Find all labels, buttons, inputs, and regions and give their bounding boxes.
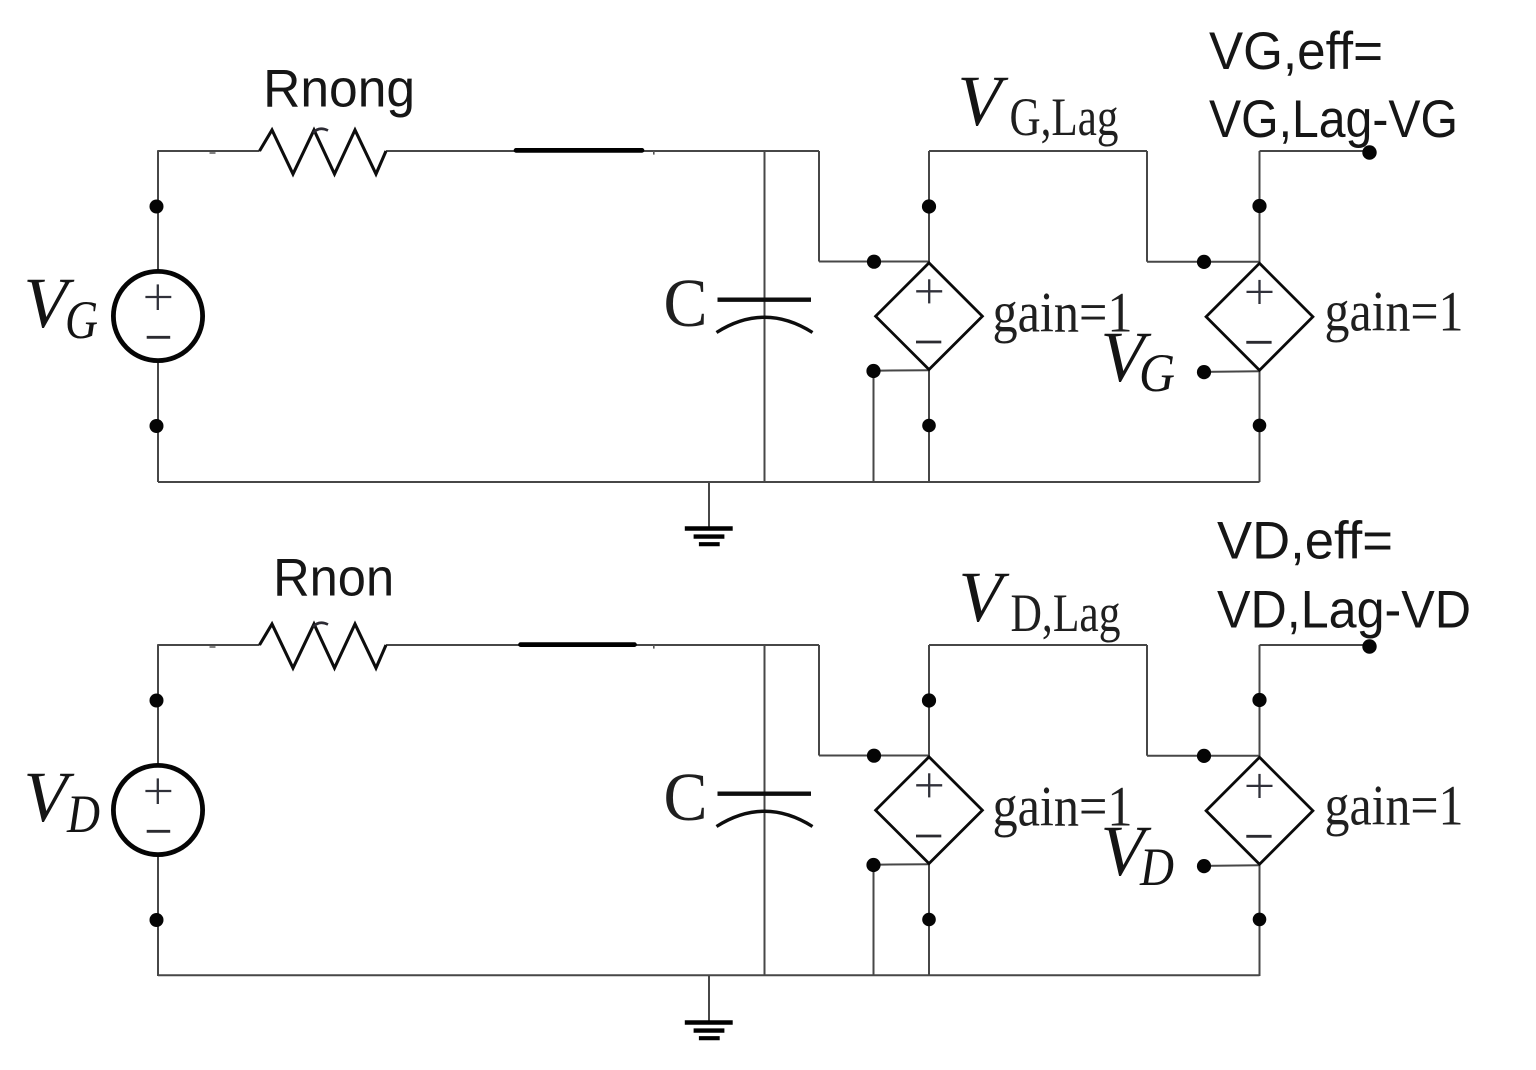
thick wire segment (top circuit) (516, 148, 642, 153)
node dot E2G input from lag net (1197, 255, 1211, 269)
svg-text:G: G (65, 290, 98, 350)
node dot eff net above E2G (1252, 199, 1266, 213)
dependent source E2G plus sign (1247, 291, 1273, 293)
svg-text:D: D (66, 784, 100, 844)
svg-text:Rnong: Rnong (263, 60, 415, 119)
thick wire segment (bottom circuit) (521, 642, 635, 647)
wire lag net horizontal (D) (929, 644, 1147, 646)
dependent source E1G minus sign (916, 341, 941, 344)
ground symbol (G) (685, 526, 733, 531)
wire bottom ground rail (G) (158, 481, 1260, 483)
wire capacitor branch vertical (G) (764, 151, 766, 482)
voltage source VG plus sign (145, 296, 171, 298)
wire left vertical upper (G) (157, 151, 159, 270)
dependent source E1D minus sign (916, 835, 941, 838)
wire tick mark left of resistor Rnon (210, 646, 216, 648)
wire E1D sense stub (D) (874, 863, 930, 866)
node dot capacitor node / E1D input (867, 749, 881, 763)
svg-text:D: D (1139, 837, 1174, 897)
wire horizontal into dependent source E1D top vertex (819, 755, 929, 757)
wire E2D sense stub (D) (1204, 864, 1260, 867)
wire bottom ground rail (D) (158, 974, 1260, 976)
capacitor CD top plate (718, 792, 812, 796)
wire ground stub (D) (708, 976, 710, 1021)
svg-text:VD,eff=: VD,eff= (1217, 512, 1393, 571)
node dot below E2D (1253, 913, 1267, 927)
svg-text:C: C (664, 265, 708, 341)
node dot source top terminal (G) (150, 200, 164, 214)
wire E1G bottom vertex down to ground rail (928, 370, 930, 483)
wire E1G sense stub (G) (874, 369, 930, 372)
svg-text:C: C (664, 759, 708, 835)
wire top left segment (D) (157, 644, 259, 646)
wire capacitor branch vertical (D) (764, 645, 766, 976)
dependent source E1G plus sign (916, 290, 942, 292)
node dot eff net terminal (D) (1362, 639, 1376, 653)
svg-text:VG,Lag-VG: VG,Lag-VG (1209, 90, 1458, 149)
wire horizontal into dependent source E1G top vertex (819, 261, 929, 263)
wire eff net horizontal (D) (1260, 644, 1370, 646)
wire E2D top vertex up to eff net (1259, 645, 1261, 757)
wire E2G top vertex up to eff net (1259, 151, 1261, 263)
node dot E1D sense minus (866, 858, 880, 872)
dependent source E2D diamond (1206, 757, 1313, 864)
wire corner vertical from lag net (G) (1146, 151, 1148, 262)
dependent source E2G minus sign (1246, 341, 1271, 344)
resistor Rnon small annotation mark (313, 623, 328, 627)
capacitor CD curved plate (717, 811, 813, 826)
node dot source bottom terminal (D) (150, 913, 164, 927)
dependent source E2D plus sign (1247, 785, 1273, 787)
tiny tick after thick segment (D) (653, 645, 655, 649)
wire E1G sense stub vertical to ground rail (873, 371, 875, 482)
dependent source E1D diamond (876, 757, 983, 864)
node dot lag net above E1G (922, 199, 936, 213)
node dot E2G sense minus (floating) (1197, 365, 1211, 379)
voltage source VD plus sign (145, 790, 171, 792)
svg-text:VD,Lag-VD: VD,Lag-VD (1217, 581, 1471, 640)
resistor Rnon zigzag (260, 624, 387, 668)
voltage source VD circle (113, 765, 202, 854)
wire top left segment (G) (157, 150, 259, 152)
wire E2D bottom vertex down to ground rail (1259, 865, 1261, 976)
wire E2G bottom vertex down to ground rail (1259, 371, 1261, 482)
node dot source top terminal (D) (150, 694, 164, 708)
svg-text:gain=1: gain=1 (1325, 281, 1464, 344)
wire horizontal into dependent source E2G top vertex (1147, 261, 1260, 263)
ground symbol (D) (685, 1020, 733, 1025)
resistor Rnong small annotation mark (313, 129, 328, 133)
wire E1D top vertex up to lag net (928, 645, 930, 757)
node dot E2D sense minus (floating) (1197, 859, 1211, 873)
wire left vertical lower (D) (157, 857, 159, 976)
node dot lag net above E1D (922, 693, 936, 707)
wire top middle segment (G) (386, 150, 819, 152)
svg-text:D,Lag: D,Lag (1011, 583, 1121, 643)
wire top middle segment (D) (386, 644, 819, 646)
wire eff net horizontal (G) (1260, 150, 1370, 152)
wire E1D sense stub vertical to ground rail (873, 865, 875, 976)
wire lag net horizontal (G) (929, 150, 1147, 152)
node dot capacitor node / E1G input (867, 255, 881, 269)
wire ground stub (G) (708, 482, 710, 527)
wire corner vertical to node row (G) (818, 151, 820, 262)
wire corner vertical to node row (D) (818, 645, 820, 756)
voltage source VG minus sign (147, 336, 171, 339)
voltage source VG circle (113, 271, 202, 360)
wire left vertical upper (D) (157, 645, 159, 764)
capacitor CG top plate (718, 298, 812, 302)
wire horizontal into dependent source E2D top vertex (1147, 755, 1260, 757)
voltage source VD minus sign (147, 830, 171, 833)
svg-text:G: G (1139, 343, 1175, 403)
node dot E1G sense minus (866, 364, 880, 378)
node dot below E1D (922, 913, 936, 927)
resistor Rnong zigzag (260, 130, 387, 174)
capacitor CG curved plate (717, 317, 813, 332)
svg-text:Rnon: Rnon (273, 548, 394, 607)
wire tick mark left of resistor Rnong (210, 152, 216, 154)
svg-text:G,Lag: G,Lag (1010, 87, 1119, 147)
node dot below E1G (922, 419, 936, 433)
wire corner vertical from lag net (D) (1146, 645, 1148, 756)
svg-text:V: V (959, 557, 1010, 637)
node dot below E2G (1253, 419, 1267, 433)
svg-text:gain=1: gain=1 (1325, 775, 1464, 838)
wire left vertical lower (G) (157, 363, 159, 482)
wire E2G sense stub (G) (1204, 370, 1260, 373)
node dot eff net above E2D (1252, 693, 1266, 707)
wire E1D bottom vertex down to ground rail (928, 864, 930, 977)
node dot E2D input from lag net (1197, 749, 1211, 763)
node dot source bottom terminal (G) (150, 419, 164, 433)
svg-text:V: V (958, 61, 1009, 141)
svg-text:VG,eff=: VG,eff= (1209, 22, 1383, 81)
node dot eff net terminal (G) (1362, 145, 1376, 159)
tiny tick after thick segment (G) (653, 151, 655, 155)
dependent source E2D minus sign (1246, 835, 1271, 838)
dependent source E2G diamond (1206, 263, 1313, 370)
dependent source E1D plus sign (916, 784, 942, 786)
wire E1G top vertex up to lag net (928, 151, 930, 263)
dependent source E1G diamond (876, 263, 983, 370)
